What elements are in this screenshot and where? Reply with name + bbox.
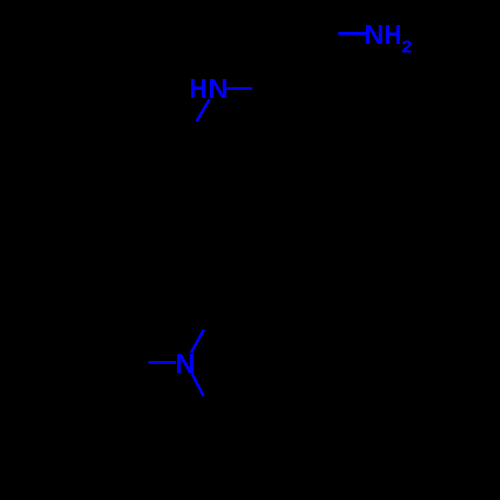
svg-text:H: H (384, 19, 401, 50)
bond HN-C (diagonal down-left) (197, 99, 210, 121)
svg-text:H: H (190, 73, 207, 104)
bond N-C (diagonal down-right) (192, 373, 204, 396)
svg-text:N: N (364, 19, 384, 50)
bond C-NH2 (338, 32, 366, 35)
svg-text:N: N (208, 73, 228, 104)
bond N-C (diagonal up-right) (191, 330, 204, 353)
bond HN-CH2 (right) (225, 87, 252, 90)
svg-text:2: 2 (402, 37, 412, 57)
bond N-CH3 (left) (148, 361, 176, 364)
